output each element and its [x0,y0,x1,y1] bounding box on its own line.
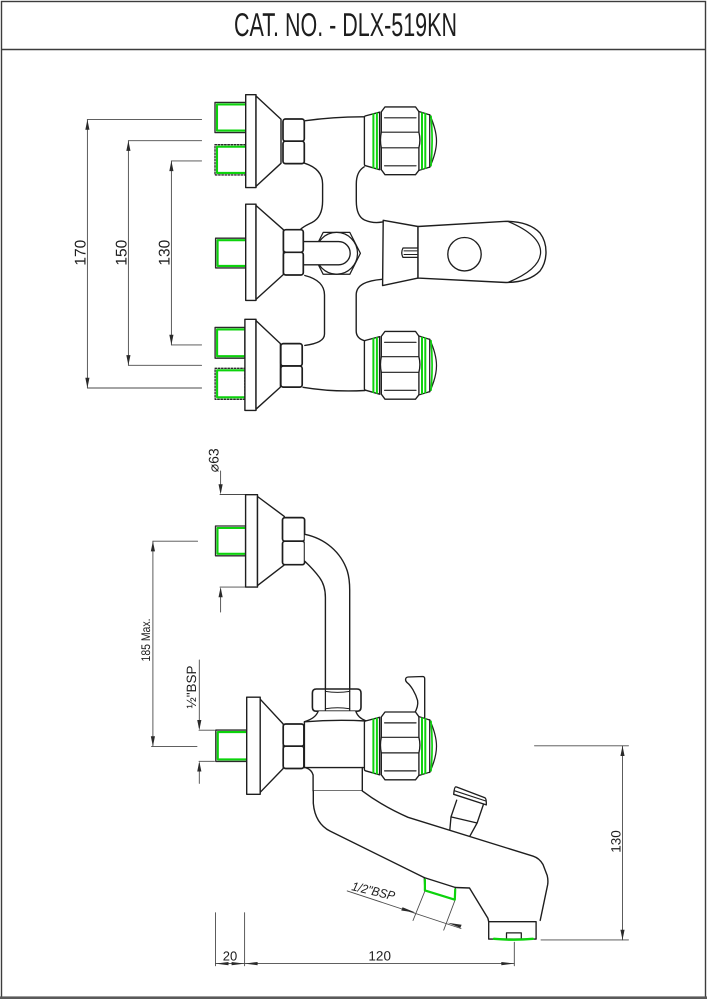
center flange nipple [216,238,247,268]
top flange nipple 1 [215,102,246,132]
wall flange (top, side view) nipple [216,526,246,556]
diverter lever inner arc [508,221,541,282]
wall flange (left) cone [260,699,283,792]
svg-text:120: 120 [368,949,391,964]
svg-text:130: 130 [157,239,174,265]
elbow pipe [305,534,350,689]
body shoulder (side view) [305,711,366,721]
spout/diverter body trapezoid (top view) [383,220,418,285]
svg-text:150: 150 [114,239,131,265]
wall flange (left) hex nut [283,724,304,769]
body lower tier line [304,767,366,769]
diverter pin [402,248,418,257]
20 and 120 dimensions [216,913,515,966]
top flange nipple 2 (alternate position, hatched) [215,145,246,175]
half inch BSP dimension [199,660,215,783]
header separator line [1,49,706,51]
top flange hex nut [283,119,304,164]
connector hex nut (top of body) [312,689,361,711]
svg-text:170: 170 [73,239,90,265]
svg-text:½"BSP: ½"BSP [184,665,199,708]
wall flange (top) plate [246,495,258,587]
bottom bar [0,996,707,999]
lower body bottom outline [303,387,365,391]
svg-text:CAT. NO. - DLX-519KN: CAT. NO. - DLX-519KN [234,6,457,43]
bottom knob [364,331,436,399]
bottom flange nipple 1 [215,327,245,358]
svg-text:20: 20 [223,949,237,964]
center flange hex nut [283,230,303,275]
wall flange (left, side view) nipple [216,730,247,761]
nozzle inner notch [507,933,522,938]
nozzle aerator box [489,922,536,939]
top body left tube outline [301,163,323,229]
outlet boss (green, bottom of spout) [424,878,455,900]
dimension 150 line [128,141,201,366]
wall flange (top) cone [258,497,285,586]
bottom flange hex nut [281,344,302,388]
lower body left tube outline [305,276,325,346]
130 dimension [535,746,629,940]
dia 63 dimension [220,471,247,612]
center cartridge stem dome [304,242,351,265]
wall flange (left) plate [247,697,261,794]
top knob [364,107,436,175]
lower body right tube outline [356,279,383,341]
nozzle green face [494,938,533,941]
top body upper outline [306,117,365,121]
center cartridge hexagon [313,232,361,274]
185 Max. dimension [152,541,198,746]
spout [313,791,548,922]
1/2 BSP slanted dimension [347,891,461,930]
center flange cone [256,206,283,300]
top flange plate [246,95,256,188]
top flange cone [256,96,281,186]
body tier bottom edge [313,790,362,792]
diverter lever (top view) [418,221,546,282]
bottom flange nipple 2 (alternate position, hatched) [215,368,245,399]
bottom flange plate [245,319,256,410]
diverter lever (side view) [406,677,425,720]
center flange plate [246,204,256,300]
center cartridge circle [316,232,358,274]
svg-text:⌀63: ⌀63 [206,448,222,472]
svg-text:185 Max.: 185 Max. [139,619,153,662]
diverter lever circle [448,238,481,271]
top body right tube outline [356,167,383,223]
dimension 170 line [87,120,201,388]
main body (side view) [304,721,366,791]
side knob [364,712,436,780]
wall flange (top) hex nut [283,518,305,565]
svg-text:130: 130 [609,830,624,853]
dimension 130 line [171,161,201,345]
shower outlet connector (tilted, behind spout) [450,787,487,837]
bottom flange cone [256,321,280,410]
